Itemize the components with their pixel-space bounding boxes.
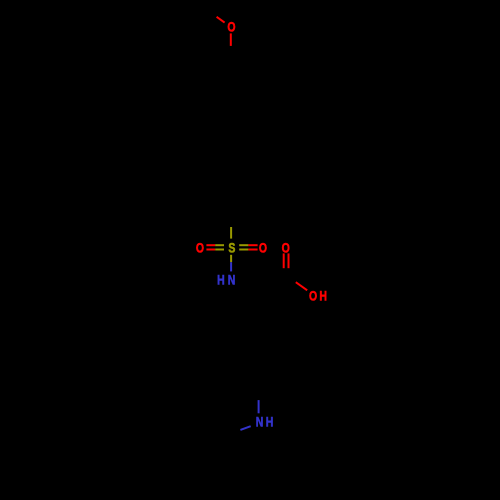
svg-text:H: H bbox=[217, 272, 225, 288]
wire methyl-O bond (methoxy CH3 to O, red half) bbox=[217, 17, 225, 23]
wire C=O double bond left line bbox=[283, 253, 285, 268]
wire S=O right double bond top line bbox=[239, 244, 248, 246]
wire C-N bond (ring carbon to NH, blue half) bbox=[258, 400, 260, 413]
svg-text:N: N bbox=[228, 272, 236, 288]
wire C-OH bond (red half) bbox=[296, 282, 307, 290]
svg-text:H: H bbox=[319, 288, 327, 304]
wire S=O right double bond bottom line bbox=[239, 249, 248, 251]
svg-text:O: O bbox=[259, 240, 267, 256]
svg-text:O: O bbox=[196, 240, 204, 256]
svg-text:N: N bbox=[256, 414, 264, 430]
wire C-S bond (chain carbon to sulfur, olive half) bbox=[230, 227, 232, 239]
svg-text:O: O bbox=[227, 19, 235, 35]
svg-text:O: O bbox=[309, 288, 317, 304]
svg-text:H: H bbox=[266, 414, 274, 430]
wire S-N bond blue half bbox=[230, 262, 232, 271]
svg-text:S: S bbox=[228, 240, 235, 256]
wire S-N bond olive half bbox=[230, 255, 232, 262]
wire S=O left double bond top line bbox=[206, 244, 215, 246]
wire N-C bond (NH to carbon lower-left, blue half) bbox=[240, 426, 250, 430]
wire O-ring bond (methoxy O to ring carbon, red half) bbox=[230, 33, 232, 46]
wire S=O left double bond bottom line bbox=[206, 249, 215, 251]
wire C=O double bond right line bbox=[288, 253, 290, 268]
